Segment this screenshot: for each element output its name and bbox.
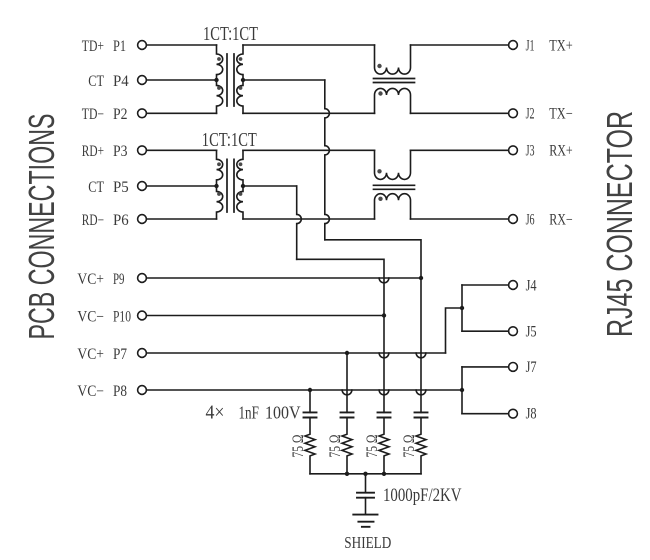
svg-text:J3: J3 — [526, 143, 535, 160]
hop P7 row over branch 4 — [416, 353, 426, 358]
svg-text:P5: P5 — [113, 179, 129, 196]
terminal J4 — [509, 281, 518, 290]
svg-text:TD+: TD+ — [82, 38, 104, 55]
svg-text:P2: P2 — [113, 106, 128, 123]
svg-text:P3: P3 — [113, 143, 128, 160]
wire P1 to T1 — [147, 44, 217, 46]
junction T1 primary center tap — [214, 78, 218, 82]
svg-text:100V: 100V — [265, 403, 301, 423]
svg-text:RX+: RX+ — [549, 143, 573, 160]
wire node B jog to branch 3 — [297, 259, 384, 315]
wire T2 secondary center tap to node B — [243, 185, 297, 187]
polarity dot T2 secondary lower — [239, 192, 243, 196]
svg-text:75 Ω: 75 Ω — [401, 435, 418, 458]
resistor R3 75 ohm — [379, 418, 389, 474]
svg-text:P8: P8 — [113, 383, 127, 400]
resistor R2 75 ohm — [342, 418, 352, 474]
resistor R4 75 ohm — [416, 418, 426, 474]
svg-text:RD+: RD+ — [82, 143, 104, 160]
wire branch 2 upper lead — [346, 353, 348, 412]
transformer T2 secondary winding — [237, 150, 243, 219]
wire bus to C5 — [365, 474, 367, 493]
hop P8 row over branch 2 — [342, 390, 352, 395]
wire J4 J5 tie — [461, 285, 463, 331]
transformer T2 core — [227, 159, 234, 212]
terminal J3 — [509, 146, 518, 155]
junction P10 and branch 3 — [382, 313, 386, 317]
polarity dot choke L1 upper — [377, 64, 381, 68]
svg-text:RD−: RD− — [82, 212, 104, 229]
svg-text:1CT:1CT: 1CT:1CT — [202, 129, 257, 151]
polarity dot choke L1 lower — [378, 91, 382, 95]
junction J4 J5 node — [460, 306, 464, 310]
wire VC- P10 row — [147, 315, 384, 317]
wire J8 — [462, 413, 509, 415]
terminal VC+ P7 — [138, 349, 147, 358]
terminal J2 — [509, 109, 518, 118]
capacitor C5 1000pF 2KV — [357, 493, 374, 498]
wire choke L1 bottom to J2 — [411, 112, 509, 114]
wire choke L2 top to J3 — [411, 149, 509, 151]
terminal J7 — [509, 363, 518, 372]
terminal VC- P10 — [138, 311, 147, 320]
svg-text:J2: J2 — [526, 106, 535, 123]
resistor R1 75 ohm — [305, 418, 315, 474]
svg-text:VC+: VC+ — [77, 346, 104, 363]
terminal J8 — [509, 409, 518, 418]
svg-text:J1: J1 — [526, 37, 535, 54]
common-mode choke L2 core — [374, 185, 415, 189]
svg-text:VC−: VC− — [77, 383, 104, 400]
common-mode choke L1 lower winding — [375, 88, 411, 113]
junction bus branch 2 — [345, 472, 349, 476]
svg-text:CT: CT — [88, 73, 104, 90]
wire P6 to T2 — [147, 218, 217, 220]
svg-text:P6: P6 — [113, 212, 129, 229]
wire J7 J8 tie — [461, 367, 463, 414]
terminal VC+ P9 — [138, 274, 147, 283]
transformer T1 secondary winding — [237, 45, 243, 113]
svg-text:TX−: TX− — [549, 106, 573, 123]
wire VC+ P9 row — [147, 277, 421, 279]
junction T2 primary center tap — [214, 184, 218, 188]
capacitor C2 1nF — [341, 412, 354, 417]
capacitor C3 1nF — [378, 412, 391, 417]
svg-text:VC+: VC+ — [77, 271, 104, 288]
svg-text:P10: P10 — [113, 308, 131, 325]
polarity dot T1 primary upper — [217, 57, 221, 61]
wire T2 secondary top to choke L2 — [243, 149, 375, 151]
wire J4 — [462, 284, 509, 286]
wire J7 — [462, 366, 509, 368]
polarity dot choke L2 upper — [377, 169, 381, 173]
svg-text:J5: J5 — [526, 324, 537, 341]
wire choke L1 top to J1 — [411, 44, 509, 46]
svg-text:PCB CONNECTIONS: PCB CONNECTIONS — [21, 114, 62, 340]
wire P2 to T1 — [147, 112, 217, 114]
junction bus branch 3 — [382, 472, 386, 476]
svg-text:J6: J6 — [526, 211, 535, 228]
wire VC- P8 row — [147, 389, 462, 391]
junction bus center stem — [363, 472, 367, 476]
svg-text:1CT:1CT: 1CT:1CT — [203, 23, 258, 45]
capacitor C4 1nF — [415, 412, 428, 417]
terminal P3 — [138, 146, 147, 155]
polarity dot choke L2 lower — [378, 197, 382, 201]
wire bottom bus — [310, 473, 421, 475]
svg-text:75 Ω: 75 Ω — [364, 435, 381, 458]
svg-text:SHIELD: SHIELD — [344, 533, 391, 552]
svg-text:P1: P1 — [113, 38, 126, 55]
wire node A vertical with hops over J2 RX and RD rows — [325, 80, 330, 240]
junction T2 secondary center tap — [241, 184, 245, 188]
common-mode choke L1 core — [374, 79, 415, 83]
wire P3 to T2 — [147, 149, 217, 151]
wire P5 to T2 center tap — [147, 185, 217, 187]
wire node A jog to branch 4 — [325, 240, 421, 278]
wire P4 to T1 center tap — [147, 79, 217, 81]
polarity dot T1 primary lower — [217, 86, 221, 90]
ground shield symbol — [353, 515, 377, 527]
hop P9 row over branch 3 — [379, 278, 389, 283]
terminal VC- P8 — [138, 386, 147, 395]
terminal P5 — [138, 182, 147, 191]
terminal J6 — [509, 215, 518, 224]
polarity dot T1 secondary lower — [239, 86, 243, 90]
wire T1 secondary bottom to choke L1 — [243, 112, 375, 114]
svg-text:CT: CT — [88, 179, 104, 196]
hop P8 row over branch 3 — [379, 390, 389, 395]
common-mode choke L1 upper winding — [375, 45, 411, 74]
terminal J1 — [509, 41, 518, 50]
svg-text:J4: J4 — [526, 277, 537, 294]
wire choke L2 bottom to J6 — [411, 218, 509, 220]
wire node B vertical with hop over RD- row — [297, 186, 302, 259]
polarity dot T1 secondary upper — [239, 57, 243, 61]
terminal P2 — [138, 109, 147, 118]
wire T1 secondary top to choke L1 — [243, 44, 375, 46]
wire J5 — [462, 330, 509, 332]
terminal P1 — [138, 41, 147, 50]
polarity dot T2 primary upper — [217, 162, 221, 166]
svg-text:TX+: TX+ — [549, 37, 573, 54]
wire P7 riser to J4 J5 node — [446, 308, 463, 353]
common-mode choke L2 upper winding — [375, 150, 411, 179]
svg-text:TD−: TD− — [82, 106, 104, 123]
terminal P6 — [138, 215, 147, 224]
transformer T2 primary winding — [217, 150, 223, 219]
svg-text:P9: P9 — [113, 271, 125, 288]
polarity dot T2 secondary upper — [239, 162, 243, 166]
wire branch 1 upper lead — [309, 390, 311, 412]
svg-text:75 Ω: 75 Ω — [290, 435, 307, 458]
junction P8 and branch 1 — [308, 388, 312, 392]
svg-text:P4: P4 — [113, 73, 129, 90]
common-mode choke L2 lower winding — [375, 194, 411, 219]
svg-text:75 Ω: 75 Ω — [327, 435, 344, 458]
svg-text:RJ45 CONNECTOR: RJ45 CONNECTOR — [599, 111, 640, 337]
wire T1 secondary center tap to node A — [243, 79, 325, 81]
svg-text:4×: 4× — [206, 403, 225, 424]
junction P9 and branch 4 — [419, 276, 423, 280]
transformer T1 core — [227, 54, 234, 106]
junction P7 and branch 2 — [345, 351, 349, 355]
wire C5 to ground — [365, 498, 367, 515]
transformer T1 primary winding — [217, 45, 223, 113]
wire T2 secondary bottom to choke L2 — [243, 218, 375, 220]
svg-text:RX−: RX− — [549, 211, 573, 228]
svg-text:1nF: 1nF — [239, 403, 259, 423]
hop P8 row over branch 4 — [416, 390, 426, 395]
polarity dot T2 primary lower — [217, 192, 221, 196]
svg-text:VC−: VC− — [77, 308, 104, 325]
wire branch 4 upper lead — [420, 278, 422, 412]
svg-text:J7: J7 — [526, 359, 537, 376]
terminal J5 — [509, 327, 518, 336]
capacitor C1 1nF — [304, 412, 317, 417]
wire VC+ P7 row — [147, 352, 446, 354]
svg-text:1000pF/2KV: 1000pF/2KV — [383, 486, 462, 506]
terminal P4 — [138, 76, 147, 85]
svg-text:J8: J8 — [526, 406, 537, 423]
junction T1 secondary center tap — [241, 78, 245, 82]
wire branch 3 upper lead — [383, 316, 385, 413]
svg-text:P7: P7 — [113, 346, 127, 363]
hop P7 row over branch 3 — [379, 353, 389, 358]
junction P8 and J7 J8 node — [460, 388, 464, 392]
